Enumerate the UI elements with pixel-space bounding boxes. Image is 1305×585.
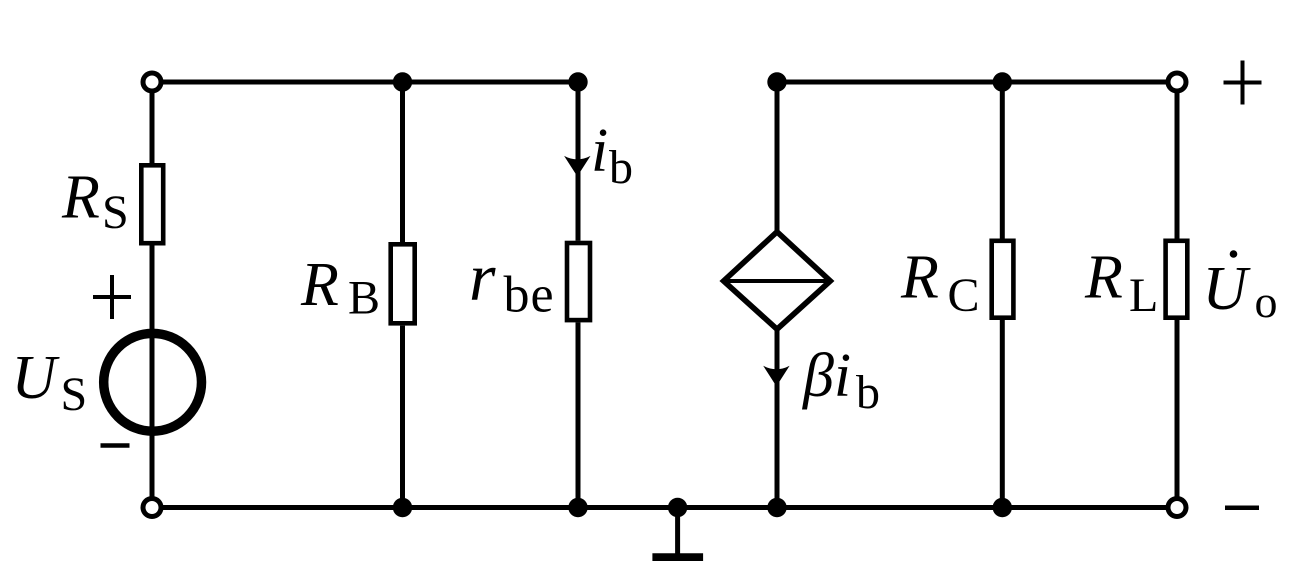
svg-text:S: S	[102, 186, 129, 239]
wire top rail left segment	[152, 80, 578, 85]
node dot rbe top	[568, 72, 587, 91]
wire RB branch lower	[400, 326, 405, 508]
wire rbe branch upper	[576, 82, 581, 241]
label minus output	[1225, 506, 1259, 511]
terminal bottom left	[143, 499, 161, 517]
svg-text:b: b	[856, 366, 880, 419]
svg-text:o: o	[1255, 276, 1278, 327]
svg-text:R: R	[1084, 244, 1123, 312]
wire left branch upper (terminal to RS)	[150, 82, 155, 163]
svg-text:S: S	[61, 368, 88, 421]
wire RC branch upper	[1000, 82, 1005, 239]
svg-text:C: C	[948, 269, 980, 322]
label RS	[61, 164, 129, 240]
label ib	[591, 117, 633, 194]
svg-text:R: R	[300, 251, 339, 319]
svg-text:U: U	[12, 344, 61, 412]
label RB	[300, 251, 380, 325]
node dot dependent source bottom	[767, 498, 786, 517]
node dot RB bottom	[393, 498, 412, 517]
svg-text:R: R	[900, 244, 939, 312]
svg-text:R: R	[61, 164, 100, 232]
wire top rail right segment	[777, 80, 1177, 85]
svg-text:be: be	[504, 267, 555, 324]
resistor RC	[992, 241, 1014, 318]
label plus output	[1224, 61, 1262, 105]
wire left branch lower (RS to US to bottom)	[150, 246, 155, 508]
wire ground stub	[675, 508, 680, 554]
label minus US	[101, 443, 130, 448]
svg-text:U: U	[1203, 255, 1252, 323]
resistor RB	[391, 244, 415, 323]
label RL	[1084, 244, 1158, 323]
arrow ib on rbe branch	[564, 156, 590, 177]
dependent current source diamond	[724, 232, 831, 329]
resistor rbe	[567, 243, 590, 320]
label beta-ib	[802, 342, 880, 419]
wire RL branch upper	[1175, 82, 1180, 239]
wire dependent source branch lower	[775, 328, 780, 508]
label Uo	[1203, 250, 1278, 327]
dependent source chord	[724, 279, 831, 283]
wire RB branch upper	[400, 82, 405, 242]
label rbe	[469, 239, 555, 324]
svg-text:b: b	[609, 141, 633, 194]
node dot rbe bottom	[568, 498, 587, 517]
label plus US	[93, 275, 131, 319]
svg-text:B: B	[348, 272, 380, 325]
source US circle	[104, 333, 202, 431]
node dot RC bottom	[993, 498, 1012, 517]
terminal top right	[1168, 73, 1186, 91]
wire bottom rail	[152, 505, 1177, 510]
wire rbe branch lower	[576, 322, 581, 507]
node dot ground	[668, 498, 687, 517]
terminal bottom right	[1168, 499, 1186, 517]
svg-text:r: r	[469, 239, 496, 315]
label US	[12, 344, 88, 421]
wire RL branch lower	[1175, 320, 1180, 508]
node dot dependent source top	[767, 72, 786, 91]
svg-text:i: i	[591, 117, 608, 185]
terminal top left	[143, 73, 161, 91]
svg-text:βi: βi	[802, 342, 851, 410]
arrow beta-ib below diamond	[763, 366, 789, 387]
node dot RC top	[993, 72, 1012, 91]
wire RC branch lower	[1000, 320, 1005, 508]
node dot RB top	[393, 72, 412, 91]
ground bar	[652, 553, 703, 561]
resistor RS	[141, 165, 163, 243]
svg-text:L: L	[1129, 269, 1158, 322]
wire dependent source branch upper	[775, 82, 780, 233]
label RC	[900, 244, 980, 323]
resistor RL	[1166, 241, 1188, 318]
